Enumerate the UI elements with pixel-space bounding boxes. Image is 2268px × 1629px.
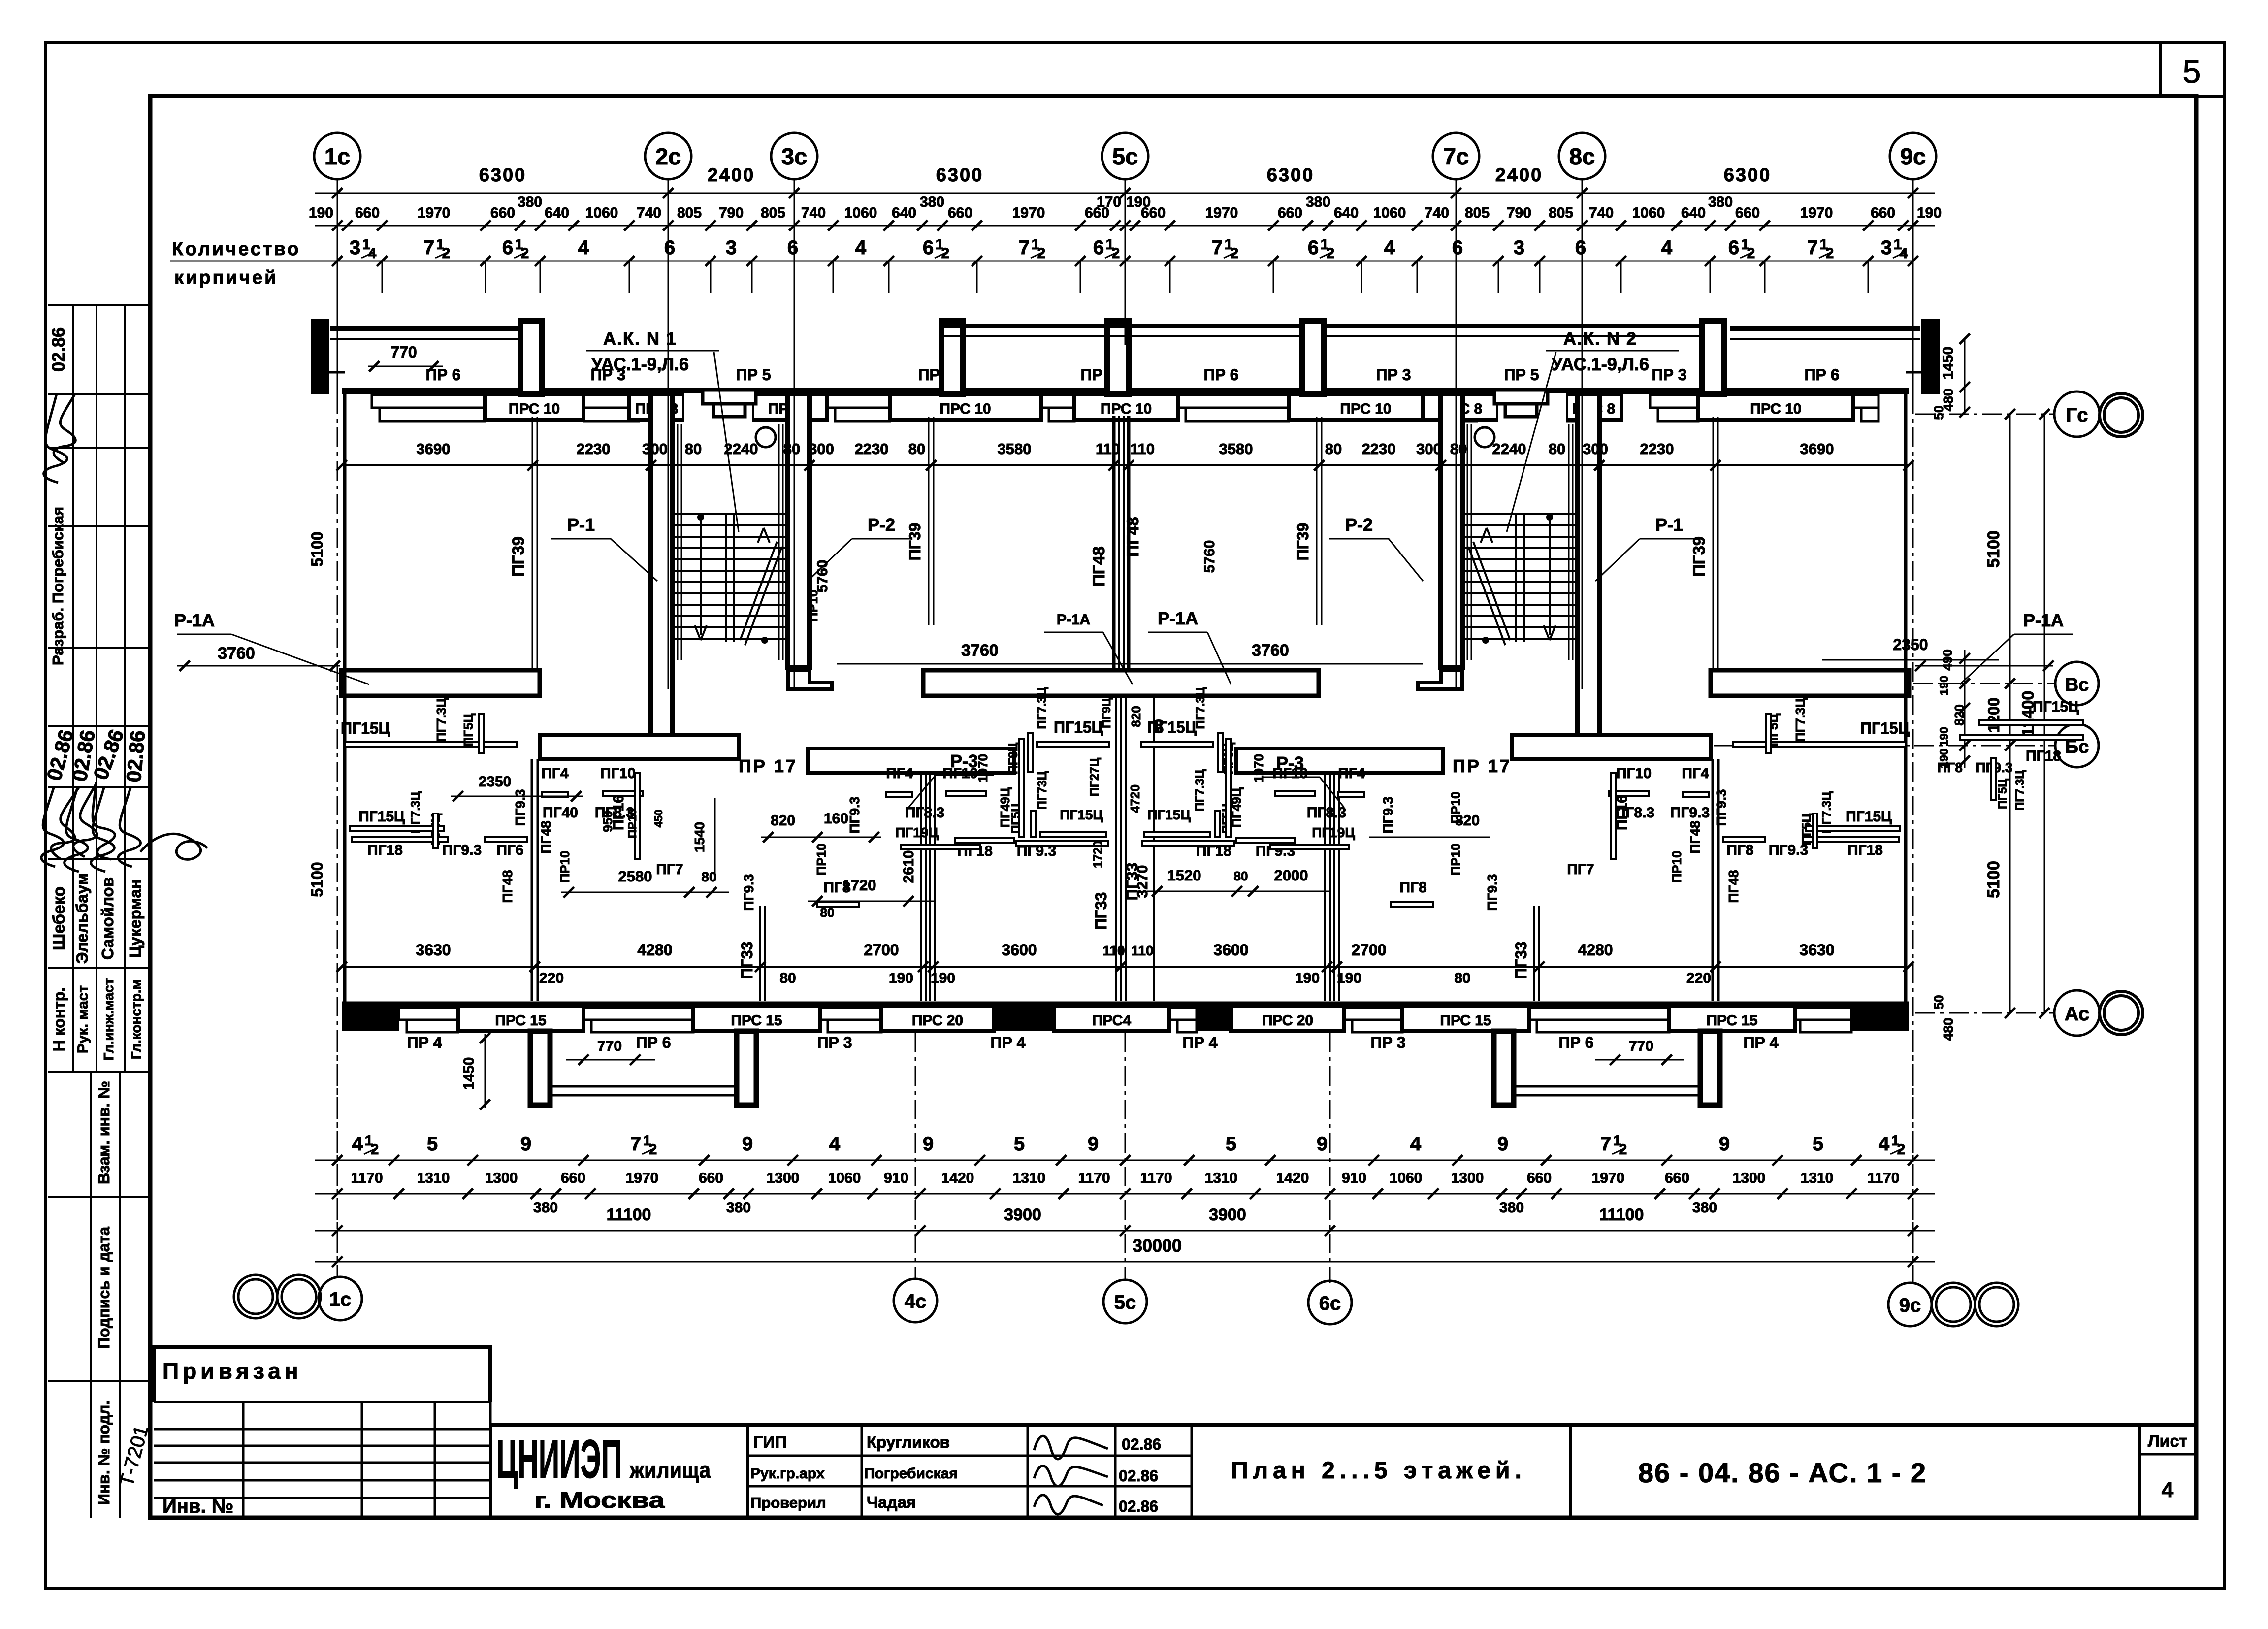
stair east wall foot [788, 670, 832, 689]
svg-text:1970: 1970 [975, 754, 990, 782]
svg-text:380: 380 [920, 194, 944, 210]
stair treads [1462, 513, 1578, 515]
right blank circle bottom [2100, 991, 2143, 1035]
svg-text:1060: 1060 [585, 205, 618, 221]
svg-text:ПГ9.3: ПГ9.3 [847, 797, 862, 834]
svg-text:1450: 1450 [1940, 347, 1956, 380]
svg-text:190: 190 [309, 205, 333, 221]
svg-text:2240: 2240 [724, 440, 758, 457]
svg-text:5с: 5с [1114, 1292, 1136, 1313]
svg-text:80: 80 [1549, 440, 1565, 457]
stair door transom left [703, 390, 756, 404]
svg-text:ПР 6: ПР 6 [636, 1034, 671, 1051]
balcony slab left [550, 1085, 737, 1088]
balcony parapet center [941, 324, 1302, 328]
svg-text:ПГ4: ПГ4 [541, 765, 569, 782]
balcony stem right 1 [1494, 1031, 1514, 1105]
svg-text:02.86: 02.86 [48, 327, 68, 372]
lintel box ПРС 15 [458, 1006, 583, 1031]
svg-text:1300: 1300 [485, 1170, 518, 1186]
svg-text:660: 660 [1527, 1170, 1552, 1186]
stair door opening right [1498, 393, 1566, 423]
corridor wall Бс segment [1512, 735, 1711, 759]
svg-text:ПР 3: ПР 3 [817, 1034, 852, 1051]
svg-text:План 2...5 этажей.: План 2...5 этажей. [1231, 1458, 1526, 1484]
svg-text:4: 4 [2162, 1478, 2174, 1502]
svg-text:Самойлов: Самойлов [98, 877, 117, 960]
dim 770 top left [368, 366, 443, 367]
svg-text:910: 910 [884, 1170, 908, 1186]
svg-text:3600: 3600 [1213, 941, 1248, 959]
svg-text:Количество: Количество [172, 239, 300, 260]
svg-text:2: 2 [1897, 1141, 1906, 1158]
door circle left stair [756, 427, 776, 447]
svg-text:910: 910 [1342, 1170, 1366, 1186]
balcony stem right 2 [1700, 1031, 1720, 1105]
svg-text:6: 6 [664, 237, 675, 259]
svg-text:80: 80 [783, 440, 800, 457]
svg-text:11100: 11100 [607, 1205, 651, 1224]
svg-text:660: 660 [490, 205, 515, 221]
svg-text:5с: 5с [1112, 143, 1138, 169]
svg-text:ПГ15Ц: ПГ15Ц [1860, 719, 1910, 737]
axis circle 7с top [1433, 133, 1479, 179]
sign table grid [861, 1425, 863, 1518]
svg-text:640: 640 [892, 205, 916, 221]
svg-text:ПГ9.3: ПГ9.3 [1017, 843, 1056, 859]
axis circle 6с bottom [1308, 1281, 1352, 1324]
right axis line 9с vertical [1912, 193, 1914, 394]
lintel box ПРС 8 [1423, 394, 1498, 420]
lower partition left apartment [531, 759, 533, 1001]
svg-text:2240: 2240 [1492, 440, 1526, 457]
lower partition 6с pair [1324, 773, 1326, 1001]
svg-text:ПР 4: ПР 4 [990, 1034, 1025, 1051]
svg-text:ПГ15Ц: ПГ15Ц [358, 809, 405, 825]
svg-text:660: 660 [1735, 205, 1760, 221]
svg-text:4280: 4280 [1578, 941, 1613, 959]
svg-text:6300: 6300 [479, 165, 527, 186]
svg-text:ПР 3: ПР 3 [1370, 1034, 1405, 1051]
svg-text:Р-1: Р-1 [567, 515, 595, 535]
svg-text:2: 2 [941, 245, 950, 261]
svg-text:ПГ48: ПГ48 [538, 820, 553, 853]
svg-text:1970: 1970 [1592, 1170, 1625, 1186]
right end wall [1904, 394, 1908, 1004]
axis line 5с [1125, 179, 1126, 193]
axis line 1с [337, 179, 338, 193]
svg-text:ПРС 15: ПРС 15 [1440, 1012, 1491, 1029]
svg-text:1540: 1540 [692, 822, 707, 852]
svg-text:5100: 5100 [1984, 861, 2003, 898]
svg-text:660: 660 [355, 205, 380, 221]
svg-text:2700: 2700 [864, 941, 899, 959]
svg-text:2: 2 [1826, 245, 1834, 261]
svg-text:7: 7 [1019, 237, 1030, 259]
svg-text:ПГ33: ПГ33 [1092, 892, 1110, 930]
svg-text:2: 2 [442, 245, 451, 261]
svg-text:ПГ39: ПГ39 [1690, 536, 1709, 577]
room dim 1520 80 2000 [1147, 891, 1329, 892]
axis circle 1с bottom [319, 1277, 362, 1320]
right dim line 5100/1200/5100 [2009, 414, 2011, 1013]
corridor wall Бс segment [808, 749, 1014, 773]
svg-text:ПР 3: ПР 3 [1652, 366, 1686, 384]
svg-text:ПГ18: ПГ18 [2026, 748, 2061, 764]
svg-text:Подпись и дата: Подпись и дата [95, 1227, 113, 1349]
svg-text:2: 2 [1747, 245, 1755, 261]
svg-text:ПГ6: ПГ6 [496, 842, 523, 858]
svg-text:6с: 6с [1319, 1293, 1341, 1314]
svg-text:2с: 2с [655, 143, 681, 169]
svg-text:2: 2 [649, 1141, 657, 1158]
axis circle 2с top [645, 133, 691, 179]
svg-text:ПГ9.3: ПГ9.3 [1380, 797, 1395, 834]
svg-text:ПР 5: ПР 5 [1504, 366, 1539, 384]
svg-text:ПРС 15: ПРС 15 [731, 1012, 782, 1029]
svg-text:9: 9 [520, 1133, 531, 1155]
svg-text:5100: 5100 [1984, 530, 2003, 568]
svg-text:ПР 5: ПР 5 [736, 366, 771, 384]
lower partition right apartment [1712, 759, 1714, 1001]
svg-text:2: 2 [371, 1141, 379, 1158]
svg-text:Проверил: Проверил [750, 1494, 826, 1511]
svg-text:1170: 1170 [1867, 1170, 1899, 1186]
svg-text:790: 790 [1507, 205, 1531, 221]
svg-text:ПГ16: ПГ16 [1614, 795, 1630, 830]
svg-text:Инв. №: Инв. № [162, 1496, 233, 1517]
svg-text:950: 950 [600, 811, 615, 832]
dim 770 left balcony [566, 1059, 655, 1061]
top wall ledge profiles [372, 395, 485, 408]
svg-text:ПГ18: ПГ18 [1196, 843, 1231, 859]
svg-text:ПГ9.3: ПГ9.3 [513, 789, 528, 826]
svg-text:ПР 4: ПР 4 [1182, 1034, 1217, 1051]
inner drawing frame [150, 96, 2196, 1518]
svg-text:4: 4 [1879, 1133, 1890, 1155]
svg-text:ПГ9.3: ПГ9.3 [1714, 789, 1729, 826]
axis circle 5с top [1102, 133, 1148, 179]
svg-text:380: 380 [726, 1200, 751, 1216]
partition wall vertical x=3484 [1713, 417, 1714, 669]
svg-text:3580: 3580 [998, 440, 1032, 457]
axis circle 4с bottom [894, 1279, 937, 1322]
svg-text:30000: 30000 [1133, 1236, 1182, 1256]
stair east wall [1578, 394, 1599, 746]
svg-text:ПР 17: ПР 17 [1453, 756, 1512, 776]
axis line 9с [1912, 179, 1914, 193]
svg-text:ПГ7.3Ц: ПГ7.3Ц [434, 698, 449, 742]
svg-text:6: 6 [1575, 237, 1586, 259]
svg-text:ПГ7: ПГ7 [656, 861, 683, 878]
svg-text:4: 4 [1661, 237, 1673, 259]
svg-text:5: 5 [427, 1133, 438, 1155]
svg-text:5: 5 [1226, 1133, 1236, 1155]
svg-text:80: 80 [685, 440, 702, 457]
lintel box ПРС 10 [890, 394, 1041, 420]
svg-text:2350: 2350 [479, 774, 512, 790]
left end wall [343, 394, 347, 1004]
stair door opening left [684, 393, 752, 423]
svg-text:ПРС 10: ПРС 10 [1340, 401, 1391, 417]
svg-text:ПР10: ПР10 [806, 590, 820, 622]
svg-text:2: 2 [521, 245, 529, 261]
svg-text:Р-1А: Р-1А [1158, 608, 1198, 628]
stamp signature [44, 394, 67, 483]
svg-text:ПГ39: ПГ39 [906, 523, 924, 561]
svg-text:160: 160 [824, 811, 848, 827]
svg-text:ПГ15Ц: ПГ15Ц [1060, 807, 1103, 822]
central wall lower ПГ33 [1115, 696, 1117, 1001]
svg-text:4: 4 [368, 245, 377, 261]
svg-text:1060: 1060 [1390, 1170, 1423, 1186]
svg-text:2230: 2230 [577, 440, 611, 457]
svg-text:2: 2 [1619, 1141, 1627, 1158]
svg-text:ПГ7.3Ц: ПГ7.3Ц [2013, 770, 2027, 811]
svg-text:Р-1А: Р-1А [2023, 610, 2064, 630]
svg-text:ПГ15Ц: ПГ15Ц [1846, 809, 1892, 825]
top pilasters [520, 321, 542, 394]
svg-text:ПГ9.3: ПГ9.3 [442, 842, 482, 858]
svg-text:2000: 2000 [1274, 867, 1308, 884]
svg-text:1970: 1970 [626, 1170, 659, 1186]
svg-text:1с: 1с [329, 1289, 352, 1310]
svg-text:Элельбаум: Элельбаум [73, 873, 91, 964]
balcony parapet left [330, 326, 520, 331]
svg-text:ПР10: ПР10 [557, 851, 572, 883]
svg-text:2: 2 [1327, 245, 1335, 261]
svg-text:3900: 3900 [1209, 1205, 1246, 1224]
svg-text:2400: 2400 [708, 165, 755, 186]
dim 770 right balcony [1595, 1059, 1684, 1061]
lintel box ПРС 8 [752, 394, 827, 420]
svg-text:ПГ48: ПГ48 [1124, 517, 1142, 557]
top dimension line 6300/2400 bays [315, 193, 1935, 194]
svg-text:4: 4 [855, 237, 867, 259]
svg-text:ПГ10: ПГ10 [1616, 765, 1652, 782]
svg-text:Погребиская: Погребиская [864, 1466, 958, 1482]
svg-text:ПГ5Ц: ПГ5Ц [1996, 779, 2009, 809]
svg-text:02.86: 02.86 [1122, 1435, 1161, 1453]
svg-text:Кругликов: Кругликов [867, 1433, 950, 1451]
stair walk line with arrow [1546, 514, 1553, 521]
balcony parapet center-right [1324, 324, 1702, 328]
axis circle 9с top [1890, 133, 1936, 179]
svg-text:ПРС4: ПРС4 [1092, 1012, 1131, 1029]
right axis circle Ас [2054, 990, 2100, 1036]
svg-text:3: 3 [1514, 237, 1524, 259]
lower thin wall ПГ33 right [1533, 906, 1535, 1001]
svg-text:2: 2 [1231, 245, 1239, 261]
svg-text:6: 6 [1452, 237, 1463, 259]
svg-text:1с: 1с [324, 143, 350, 169]
svg-text:820: 820 [1455, 813, 1480, 829]
door circle right stair [1475, 427, 1494, 447]
svg-text:3630: 3630 [1799, 941, 1834, 959]
svg-text:02.86: 02.86 [1119, 1467, 1158, 1485]
svg-text:6: 6 [787, 237, 798, 259]
stamp signatures row [41, 788, 64, 867]
right axis circle Вс [2055, 662, 2099, 705]
svg-text:ПГ4: ПГ4 [886, 765, 913, 782]
svg-text:1970: 1970 [1251, 754, 1266, 782]
svg-text:6: 6 [923, 237, 934, 259]
svg-text:ПГ40: ПГ40 [543, 805, 578, 821]
axis circle 9с bottom [1888, 1283, 1932, 1326]
svg-text:190: 190 [931, 970, 955, 986]
partition wall vertical x=1891 [928, 417, 930, 625]
svg-text:ПГ9.3: ПГ9.3 [1670, 805, 1710, 821]
room dim 1720 80 [808, 901, 936, 902]
svg-text:1420: 1420 [1276, 1170, 1309, 1186]
svg-text:770: 770 [1629, 1038, 1653, 1054]
svg-text:Р-1А: Р-1А [1057, 612, 1090, 628]
svg-text:60: 60 [1151, 719, 1166, 734]
stair west wall [651, 394, 673, 746]
svg-text:3760: 3760 [961, 641, 999, 660]
stair east wall panel [1572, 424, 1574, 660]
svg-text:ПГ15Ц: ПГ15Ц [341, 719, 390, 737]
svg-text:740: 740 [801, 205, 826, 221]
svg-text:ПРС 10: ПРС 10 [940, 401, 991, 417]
svg-text:ПГ48: ПГ48 [1090, 546, 1108, 586]
svg-text:Р-2: Р-2 [1345, 515, 1373, 535]
svg-text:УАС.1-9,Л.6: УАС.1-9,Л.6 [1552, 354, 1649, 374]
svg-text:5760: 5760 [814, 560, 831, 593]
svg-text:1720: 1720 [1091, 841, 1105, 868]
svg-text:ПГ8.3: ПГ8.3 [1307, 805, 1346, 821]
svg-text:А.К. N 2: А.К. N 2 [1563, 328, 1637, 349]
svg-text:2700: 2700 [1351, 941, 1386, 959]
svg-text:1170: 1170 [1078, 1170, 1110, 1186]
stair axis line 8с [1582, 193, 1583, 689]
bound table grid [154, 1401, 490, 1403]
svg-text:1170: 1170 [351, 1170, 383, 1186]
svg-text:ПР10: ПР10 [814, 844, 829, 876]
svg-text:660: 660 [1141, 205, 1166, 221]
svg-text:4280: 4280 [637, 941, 672, 959]
bottom 11100/3900 dimension line [315, 1230, 1935, 1232]
svg-text:9: 9 [742, 1133, 753, 1155]
stair treads [673, 513, 788, 515]
svg-text:190: 190 [1938, 676, 1951, 695]
stair axis line 7с [1456, 193, 1457, 689]
lintel box ПРС4 [1054, 1006, 1169, 1031]
partition wall vertical x=1086 [532, 417, 533, 669]
svg-text:Р-1: Р-1 [1655, 515, 1683, 535]
stair stringer [725, 514, 727, 642]
svg-text:1060: 1060 [844, 205, 877, 221]
svg-text:ПГ10: ПГ10 [600, 765, 636, 782]
svg-text:ПГ8: ПГ8 [1399, 880, 1426, 896]
room dim 2580 80 [561, 892, 729, 893]
corridor wall Бс segment [1236, 749, 1443, 773]
svg-text:190: 190 [889, 970, 913, 986]
svg-text:Рук. маст: Рук. маст [75, 985, 91, 1053]
svg-text:5: 5 [2183, 53, 2201, 90]
svg-text:ПР 4: ПР 4 [1743, 1034, 1778, 1051]
central double wall ПГ48 [1112, 416, 1116, 670]
svg-text:ПГ48: ПГ48 [1687, 820, 1703, 853]
svg-text:Рук.гр.арх: Рук.гр.арх [750, 1466, 825, 1482]
svg-text:Инв. № подл.: Инв. № подл. [95, 1401, 113, 1505]
svg-text:660: 660 [699, 1170, 723, 1186]
svg-text:7с: 7с [1443, 143, 1469, 169]
svg-text:660: 660 [1665, 1170, 1689, 1186]
svg-text:820: 820 [1952, 704, 1967, 725]
svg-text:110: 110 [1096, 440, 1120, 457]
lintel box ПРС 15 [1402, 1006, 1529, 1031]
svg-text:3: 3 [1881, 237, 1892, 259]
svg-text:ПГ9.3: ПГ9.3 [1485, 874, 1500, 911]
svg-text:110: 110 [1130, 440, 1155, 457]
axis circle 5с bottom [1103, 1280, 1147, 1323]
svg-text:ПГ33: ПГ33 [738, 942, 756, 979]
svg-text:Разраб. Погребиская: Разраб. Погребиская [49, 507, 66, 665]
svg-text:УАС.1-9,Л.6: УАС.1-9,Л.6 [591, 354, 689, 374]
blank axis circle bottom [1932, 1283, 1975, 1326]
stair west wall foot [651, 749, 689, 755]
lintel box ПРС 15 [693, 1006, 820, 1031]
svg-text:820: 820 [1129, 706, 1143, 727]
svg-text:ПР10: ПР10 [626, 809, 639, 838]
axis circle 8с top [1559, 133, 1605, 179]
svg-text:7: 7 [423, 237, 434, 259]
svg-text:640: 640 [1334, 205, 1359, 221]
svg-text:6: 6 [502, 237, 513, 259]
svg-text:11100: 11100 [1599, 1205, 1644, 1224]
svg-text:3760: 3760 [1252, 641, 1289, 660]
stair east wall foot [1561, 749, 1599, 755]
svg-text:80: 80 [1454, 970, 1470, 986]
bottom fine dimension line [315, 1193, 1935, 1195]
svg-text:ПГ19Ц: ПГ19Ц [1312, 825, 1355, 840]
stair door transom right [1494, 390, 1548, 404]
corridor wall Вс segment [341, 670, 540, 696]
bottom 30000 dimension line [315, 1261, 1935, 1263]
svg-text:ПГ15Ц: ПГ15Ц [2033, 699, 2079, 715]
svg-text:ПГ7.3Ц: ПГ7.3Ц [1193, 769, 1207, 812]
svg-text:ПР 6: ПР 6 [1558, 1034, 1593, 1051]
svg-text:7: 7 [1600, 1133, 1611, 1155]
svg-text:6300: 6300 [1724, 165, 1772, 186]
lintel box ПРС 20 [881, 1006, 994, 1031]
axis line 8с [1582, 179, 1583, 193]
svg-text:3600: 3600 [1002, 941, 1037, 959]
dim 1450 left balcony [485, 1034, 486, 1108]
svg-text:ПРС 15: ПРС 15 [495, 1012, 546, 1029]
svg-text:770: 770 [597, 1038, 622, 1054]
top fine dimension line [315, 225, 1935, 227]
corridor wall Бс segment [540, 735, 739, 759]
svg-text:190: 190 [1917, 205, 1942, 221]
svg-text:1060: 1060 [1632, 205, 1665, 221]
svg-text:1420: 1420 [941, 1170, 974, 1186]
svg-text:220: 220 [1686, 970, 1711, 986]
svg-text:Н контр.: Н контр. [50, 987, 68, 1052]
svg-text:4720: 4720 [1128, 784, 1142, 813]
svg-text:ПР 4: ПР 4 [407, 1034, 442, 1051]
svg-text:110: 110 [1131, 943, 1153, 958]
svg-text:6: 6 [1308, 237, 1319, 259]
svg-text:6: 6 [1093, 237, 1104, 259]
svg-text:4: 4 [829, 1133, 841, 1155]
svg-text:300: 300 [1416, 440, 1442, 457]
svg-text:А.К. N 1: А.К. N 1 [603, 328, 677, 349]
right small dims 1450/480/50 top [1964, 339, 1966, 414]
lintel box ПРС 10 [1698, 394, 1853, 420]
svg-text:Р-2: Р-2 [868, 515, 895, 535]
